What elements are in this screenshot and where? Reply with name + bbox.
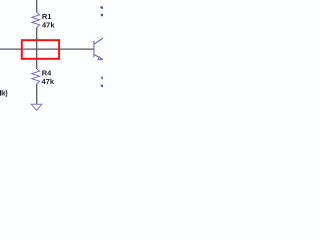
svg-text:k): k) bbox=[2, 89, 8, 98]
svg-text:47k: 47k bbox=[42, 77, 55, 86]
svg-text:47k: 47k bbox=[42, 20, 55, 29]
